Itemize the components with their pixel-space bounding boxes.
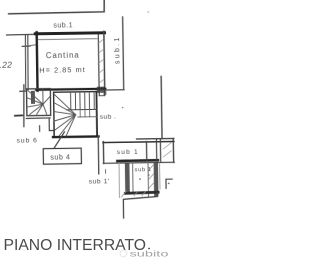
leader line to sub 4 box <box>54 132 65 148</box>
wire tick above sub6 <box>39 126 41 131</box>
wire long vertical x162 <box>160 76 163 138</box>
wire bottom hook outline <box>123 193 157 218</box>
wall dark bottom band of sub1 room <box>117 159 157 162</box>
svg-text:.22: .22 <box>0 59 12 69</box>
wire double line under spiral box <box>26 117 50 120</box>
speck top right <box>147 11 148 12</box>
stair block outline <box>54 92 98 137</box>
wire tick above sub1' label <box>105 170 107 173</box>
room sub1 bottom thin line <box>103 162 174 163</box>
room Cantina top wall <box>35 33 104 34</box>
room Cantina right wall outer line <box>103 31 106 94</box>
stair steps verticals upper <box>71 92 95 110</box>
corner block bottom right of cantina <box>97 87 105 93</box>
svg-text:Cantina: Cantina <box>46 50 80 60</box>
spiral stair fan <box>27 90 50 115</box>
box sub 4 <box>43 148 81 164</box>
wire connector y90 <box>105 89 124 91</box>
dot in lower room <box>139 178 141 180</box>
wall B left of spiral box <box>23 85 24 127</box>
spiral stair dark bar <box>31 91 35 104</box>
wire top boundary line <box>9 0 105 14</box>
room sub1 partition <box>146 141 148 160</box>
wire tick bottom of wall A <box>20 90 27 92</box>
room sub1 left edge <box>102 142 104 164</box>
wire left thin line y33 <box>7 33 36 36</box>
hatch in right wall <box>98 40 104 84</box>
room Cantina right wall inner line <box>97 35 100 93</box>
svg-text:sub 1: sub 1 <box>134 167 151 173</box>
wire right vertical x123 <box>123 17 124 89</box>
room sub1 right edge <box>172 138 174 162</box>
svg-text:sub.1: sub.1 <box>114 37 121 64</box>
stair steps horizontal <box>66 108 96 110</box>
svg-text:subito: subito <box>130 250 170 259</box>
svg-text:PIANO INTERRATO: PIANO INTERRATO <box>4 237 147 254</box>
hatch in lower room walls <box>149 165 154 188</box>
wire tick across wall A <box>22 45 30 47</box>
svg-text:sub 1': sub 1' <box>89 178 110 185</box>
stair block bottom wall <box>53 135 98 138</box>
svg-text:sub 1: sub 1 <box>117 149 139 156</box>
room sub1 right double verticals <box>155 139 157 162</box>
wall A double vertical left of cantina <box>25 35 26 90</box>
room Cantina bottom wall <box>36 89 105 90</box>
watermark subito <box>120 250 169 259</box>
lower room faint outer left <box>118 163 121 197</box>
room Cantina left wall <box>35 32 38 90</box>
speck middle right <box>122 107 124 109</box>
svg-text:sub 4: sub 4 <box>50 154 70 161</box>
stair fan <box>54 94 76 137</box>
wire step below spiral box <box>49 119 54 131</box>
svg-text:sub 6: sub 6 <box>17 137 38 144</box>
hatch right part <box>163 143 171 157</box>
lower room bottom wall <box>125 192 158 193</box>
stair steps lower band <box>78 109 97 117</box>
svg-text:sub .: sub . <box>100 114 117 121</box>
lower room left wall <box>125 163 130 194</box>
svg-text:H= 2.85 mt: H= 2.85 mt <box>39 65 85 75</box>
wire vertical x98 below stairs <box>97 137 100 174</box>
wire tick at wall B <box>15 114 22 116</box>
lower room right wall <box>147 163 149 196</box>
symbol bracket right <box>166 179 172 188</box>
svg-text:sub.1: sub.1 <box>53 22 73 29</box>
room Cantina inner top line <box>39 38 97 41</box>
room sub1 horizontal: top edge <box>103 141 174 142</box>
spiral stair box <box>27 89 51 116</box>
wire overhang line above room <box>137 137 174 140</box>
